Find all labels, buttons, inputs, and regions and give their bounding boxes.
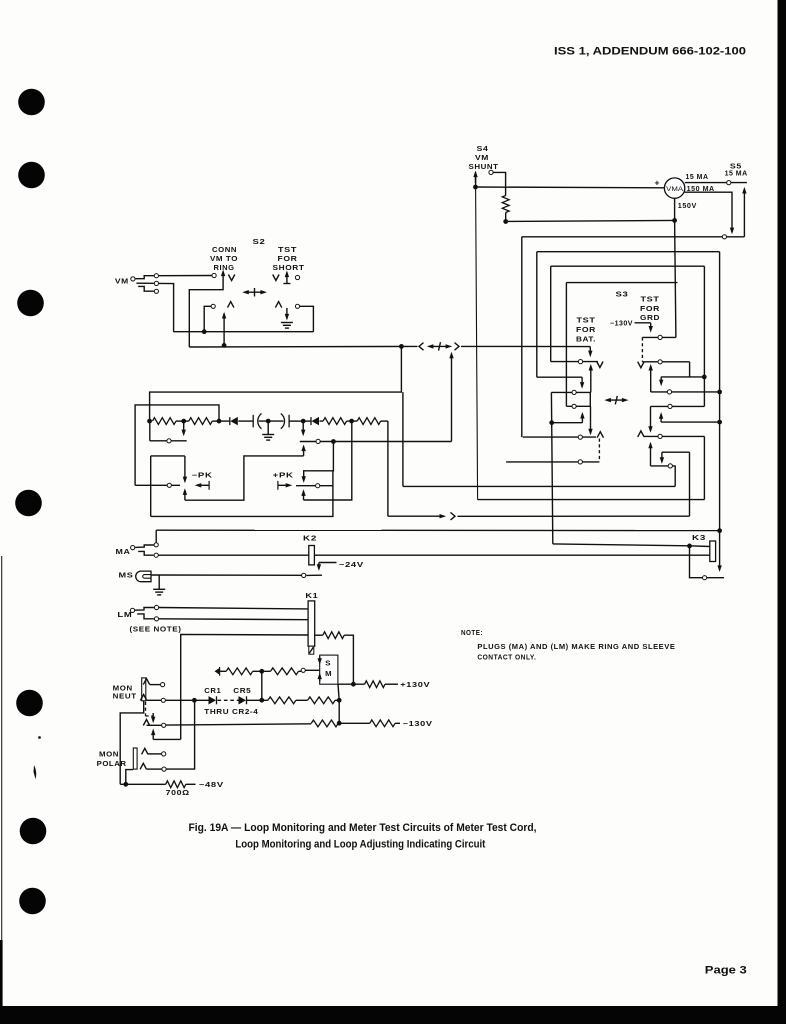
wire CR5 to node [247,699,268,701]
arrow onto row6R [660,452,664,464]
connector chevron left [419,343,424,351]
resistor monitor R1 [226,668,253,675]
label S contact [325,660,331,667]
svg-text:CR5: CR5 [233,688,251,695]
row2L terminal [572,390,576,394]
junction dot chain 5 [349,419,354,424]
svg-text:MON: MON [99,752,119,759]
junction dot CR row mid [259,698,264,703]
svg-text:+: + [655,177,660,187]
terminal row Lb [316,439,320,443]
wire network top2 [135,405,219,485]
resistor 700 ohm [166,781,186,788]
wire C left edge [550,266,552,361]
-PK below arrow [183,488,187,500]
wire into S-M box [305,669,320,671]
wire main line right [461,345,590,347]
wire S2 bus [173,331,313,333]
junction dot wireB MA line [717,528,722,533]
figure caption line 2 [235,839,485,851]
svg-text:−130V: −130V [403,721,433,728]
wire S4 left vertical [476,174,478,500]
MON NEUT dashed wiper [146,702,154,716]
svg-text:NOTE:: NOTE: [461,630,483,637]
svg-text:S3: S3 [616,292,629,299]
capacitor right plate [281,414,289,429]
arrow onto +PK row [302,476,306,483]
row3L terminal [572,404,576,408]
label -24V [339,562,364,569]
wire short-contact to bus [300,306,314,331]
wire B left edge [536,252,538,378]
ground at cap center [262,421,274,440]
note text line 2 [477,654,536,661]
arrowhead wire B end [717,565,721,572]
connector chevron 516 [451,512,456,520]
label S3 [616,292,629,299]
arrow C onto row3R [659,377,663,387]
label TST FOR BAT [576,318,596,344]
ground under TST FOR SHORT [281,308,293,328]
junction dot x551 [549,420,554,425]
switch S2 lower contact fixed terminal [211,304,215,308]
svg-text:CR1: CR1 [204,688,221,695]
switch S2 lower contact wiper [222,302,234,319]
arrow up to main line [449,352,453,442]
jack MON POLAR [133,748,137,769]
svg-text:S: S [325,660,331,667]
wire K1 to resistor [315,634,323,636]
junction dot chain 4 [301,419,306,424]
row2R contact line [642,361,689,363]
svg-text:K3: K3 [692,535,706,542]
label CR5 [233,688,251,695]
relay coil K3 [710,541,716,562]
wire C right edge [703,266,705,406]
label CONN VM TO RING [210,247,238,272]
wire VM ring down to bus [159,283,174,331]
svg-text:−24V: −24V [339,562,364,569]
plug LM ring terminal [154,617,158,621]
junction dot cap center [266,419,271,424]
wire +130 row end [385,683,398,685]
wire 150MA arrow shaft [731,228,733,232]
capacitor left plate [253,414,261,429]
plus sign at meter [655,177,660,187]
svg-text:TST: TST [577,318,596,325]
wire MA ring line [158,554,710,556]
wire resistor to junction [505,213,507,222]
wire polar jack ground [126,770,134,785]
wire 15MA line [685,182,727,184]
wire -24V drop [317,563,337,571]
diode CR1 [209,696,217,704]
arrow chain4 down [301,421,305,436]
svg-text:THRU CR2-4: THRU CR2-4 [204,709,258,716]
wire S2 lower wiper to line [223,314,225,345]
wire S4 junction to meter [476,186,665,189]
svg-text:CONN: CONN [212,247,237,254]
MON NEUT upper contact [143,679,164,687]
arrow B onto row2L [580,377,584,389]
svg-text:FOR: FOR [576,327,596,334]
small tick mark [34,765,37,779]
svg-text:ISS 1, ADDENDUM 666-102-100: ISS 1, ADDENDUM 666-102-100 [554,46,746,58]
row5R chain up arrow [648,442,652,466]
wire B right edge [719,252,721,566]
plug VM label [115,279,129,286]
note heading [461,630,483,637]
svg-text:TST: TST [641,297,660,304]
wire 456 left segment [151,455,185,457]
row4L terminal [578,435,582,439]
row1R terminal [658,335,662,339]
svg-text:NEUT: NEUT [113,694,137,701]
small speck [38,736,41,739]
label S4 VM SHUNT [469,146,499,171]
svg-text:−PK: −PK [192,473,213,480]
wire lower contact to bus [204,306,211,331]
wire S2 wiper down-left [189,278,223,347]
plug LM label [117,612,132,619]
junction dot -48 row [123,782,128,787]
dashed link row1R-row2R [641,337,643,361]
resistor monitor R2 [271,668,299,675]
label SEE NOTE [130,627,182,634]
label 150 MA [687,186,715,193]
svg-text:Fig. 19A — Loop Monitoring and: Fig. 19A — Loop Monitoring and Meter Tes… [189,822,537,834]
wire row2R right link [689,362,691,377]
wire D top [566,282,677,284]
svg-text:S2: S2 [253,239,266,246]
row1R contact line [642,336,676,338]
wire K3 contact line [707,577,725,579]
wire -48 row left [120,783,166,785]
punch hole 1 [18,89,45,116]
wire -130 row end [395,722,400,724]
meter VMA [664,178,684,198]
resistor +130 row [365,681,385,688]
svg-text:LM: LM [117,612,132,619]
junction dot monitor node [259,669,264,674]
switch S4 wiper arrow [473,171,477,184]
row5L terminal [578,460,582,464]
junction dot K3 [687,544,692,549]
+PK terminal [316,484,320,488]
wire LM ring line [159,618,308,621]
+PK symbol [278,481,292,490]
punch hole 7 [19,888,46,915]
junction dot row Lb [331,439,336,444]
wire B top [537,251,720,253]
label S5 15 MA [725,171,748,178]
diode CR left 2 [311,417,319,425]
svg-text:K1: K1 [305,593,318,600]
figure caption line 1 [189,822,537,834]
row1L contact line [551,361,598,363]
arrow onto row4L [588,423,592,436]
svg-text:FOR: FOR [640,306,660,313]
wire loop to K1 [181,634,308,739]
resistor chain R-a [153,418,177,425]
junction dot +130 [351,682,356,687]
wire S-M box to CR row [338,684,339,700]
arrow onto row5R [648,426,652,433]
row4L wiper caret [597,432,603,438]
junction dot chain 2 [181,419,186,424]
svg-text:Page 3: Page 3 [705,965,747,977]
dashed wiper link left [598,439,600,462]
right page edge black bar [778,0,786,1024]
ground under MS [153,575,165,595]
junction dot stub wireC [702,375,707,380]
wire R2 to SM terminal [299,670,302,672]
contact row Lb [300,441,452,443]
label TST FOR GRD [640,297,660,323]
+PK contact row [296,485,333,487]
plug VM tip terminal [154,274,158,278]
wire diode1 to cap [238,420,253,422]
wire C top [551,265,705,267]
svg-text:M: M [325,671,332,678]
wire x403 vertical [402,392,404,486]
row1L chain up arrow [589,364,593,393]
svg-text:BAT.: BAT. [576,337,596,344]
wire chain1 down [149,421,151,441]
junction dot lower bus [202,329,207,334]
resistor CR row R2 [308,697,336,704]
wire 150MA branch [685,192,732,228]
label 15 MA [686,174,709,181]
svg-text:S4: S4 [477,146,489,153]
switch S5 terminal [727,181,731,185]
K2 contact wiper [306,574,322,576]
arrow main line into S3 bat wiper [588,347,592,358]
row5L contact line [506,461,599,463]
junction dot S4 [473,185,478,190]
resistor chain R-c [323,418,347,425]
MON POLAR lower contact [140,763,166,771]
wire LM tip line [159,608,308,609]
label THRU CR2-4 [204,709,258,716]
svg-text:MA: MA [116,549,131,556]
svg-text:S5: S5 [730,164,742,171]
label MON POLAR [97,752,127,769]
wire 516 right part [458,515,690,517]
left page edge black sliver [0,556,3,1024]
wire wiper return to loop [153,738,181,740]
switch S2 contact CONN-VM-TO-RING fixed terminal [212,273,216,277]
arrow onto -130 contact [151,713,155,723]
-PK terminal [167,483,171,487]
wire monitor node down [261,671,263,700]
plug LM tip terminal [154,605,158,609]
wire K3 feed vertical [552,423,553,544]
lamp MS [136,571,151,582]
junction dot CR row left [192,698,197,703]
label S5 [730,164,742,171]
resistor -130 row R1 [311,720,338,727]
arrow up to 15MA line [742,187,746,237]
junction dot meter bottom line [672,218,677,223]
wire B stub [537,376,582,378]
wire main to network [150,346,402,421]
S-M terminal [301,668,305,672]
svg-text:SHUNT: SHUNT [469,164,499,171]
wire C stub right [661,376,704,378]
wire R1 to node [253,670,271,672]
switch S2 contact CONN-VM-TO-RING wiper [221,270,235,281]
wire Ra-Rb [176,420,189,422]
label +130V supply [400,682,430,689]
wire row2L-row3L right link [589,392,591,406]
wire +130 row [338,683,365,685]
wire CR row left [165,699,209,701]
bottom page edge black bar [0,1006,786,1024]
svg-text:POLAR: POLAR [97,761,127,768]
diode CR left [230,417,238,425]
arrow up 661 onto row4R [659,412,663,422]
punch hole 3 [17,290,44,317]
lamp MS label [119,573,134,580]
row5R terminal [658,434,662,438]
resistor K1 branch [323,632,344,639]
wire resistor to +130 node [344,635,353,684]
row2R chain up arrow [649,364,653,392]
wire S5 line end [731,182,747,184]
wire -48 row end [186,783,196,785]
wire -PK return [185,456,304,500]
label S2 [253,239,266,246]
wire to resistor Ra2 [220,670,227,672]
wire link down to -130 row [338,700,340,723]
wire to diode1 [219,420,230,422]
row3L contact line [566,405,590,407]
diode CR5 [239,696,247,704]
arrow up at 582 onto row3L [580,412,584,423]
wire -130 row mid [338,722,370,724]
-PK contact row [135,484,180,486]
wire return 486 [403,485,675,487]
plug VM sleeve terminal [154,289,158,293]
row2R wiper V [638,362,644,368]
wire polar contact riser [166,700,195,769]
label 700 ohm [166,790,190,797]
wire MA line to K3 [156,529,719,531]
wire cap to junction4 [289,420,303,422]
svg-text:CONTACT ONLY.: CONTACT ONLY. [477,654,536,661]
label K1 [305,593,318,600]
K2 contact terminal [302,573,306,577]
contact row La [150,440,187,442]
MON NEUT -130 contact [143,720,165,728]
wire meter down to S3 [675,198,676,337]
plug VM ring terminal [154,281,158,285]
svg-text:GRD: GRD [640,315,660,322]
row2L contact line [551,391,590,393]
label -PK [192,473,213,480]
wire +PK right return [151,471,333,517]
resistor S4 shunt [502,196,509,213]
wire -130V to grd wiper [635,323,653,333]
junction dot -130 row [337,721,342,726]
+PK below arrow [301,489,305,500]
terminal on wire A [722,235,726,239]
svg-text:+130V: +130V [400,682,430,689]
row6R contact line [651,465,676,467]
resistor chain R-d [357,418,381,425]
resistor CR row R1 [268,697,296,704]
wire -130 row [166,724,312,725]
wire K3 contact branch [690,546,703,578]
switch TST FOR SHORT make contact [273,271,300,284]
wire resistor junction to meter junction [506,220,675,221]
junction dot chain 3 [217,419,222,424]
MON NEUT CR contact [140,695,165,703]
row4R terminal [668,404,672,408]
punch hole 5 [16,690,43,717]
jack MON NEUT [142,678,146,701]
wire Rc-Rd [347,420,358,422]
MON POLAR upper contact [142,748,166,756]
switch TST FOR SHORT break contact [275,302,299,309]
wire VM tip to S2 contact [159,275,212,277]
plug MA symbol [131,545,154,555]
wire A top [522,236,745,238]
top chain start symbol [215,667,220,676]
plug MA tip terminal [154,543,158,547]
stub 452 line [662,451,690,453]
row6R terminal [668,464,672,468]
K3 contact terminal [703,576,707,580]
relay coil K2 [309,546,315,565]
svg-text:Loop Monitoring and Loop Adjus: Loop Monitoring and Loop Adjusting Indic… [235,839,485,851]
plug LM symbol [130,608,154,619]
arrowhead 150MA down [730,228,734,235]
junction dot CR row right [337,698,342,703]
wire CR row end [335,699,339,701]
wire Rb-junction3 [212,420,219,422]
stub 422 line [552,422,583,424]
wire CR row mid [296,699,308,701]
dashed CR link [218,699,240,701]
relay coil K1 [308,601,315,646]
punch hole 4 [15,490,42,517]
junction dot wireB row3R [717,390,722,395]
svg-text:700Ω: 700Ω [166,790,190,797]
junction dot main line [399,344,404,349]
svg-text:TST: TST [278,247,297,254]
connector arrow 516 [440,514,447,518]
svg-text:+PK: +PK [273,473,294,480]
wire chain end down [387,421,389,516]
resistor chain R-b [189,418,213,425]
label K3 [692,535,706,542]
plug MA ring terminal [154,553,158,557]
wire K3 feed from S3 [553,544,690,546]
junction dot under resistor [503,219,508,224]
junction dot chain 1 [147,419,152,424]
connector double arrow [427,342,452,350]
wire S4 contact to resistor [493,172,506,195]
wire 456 left riser [150,456,152,517]
connector chevron right [455,343,460,351]
wire Rd end [381,420,388,422]
ganged arrow S3 center [604,396,628,405]
wire row6R right down [674,466,676,486]
row3R contact line [651,391,720,393]
svg-text:−48V: −48V [199,782,224,789]
